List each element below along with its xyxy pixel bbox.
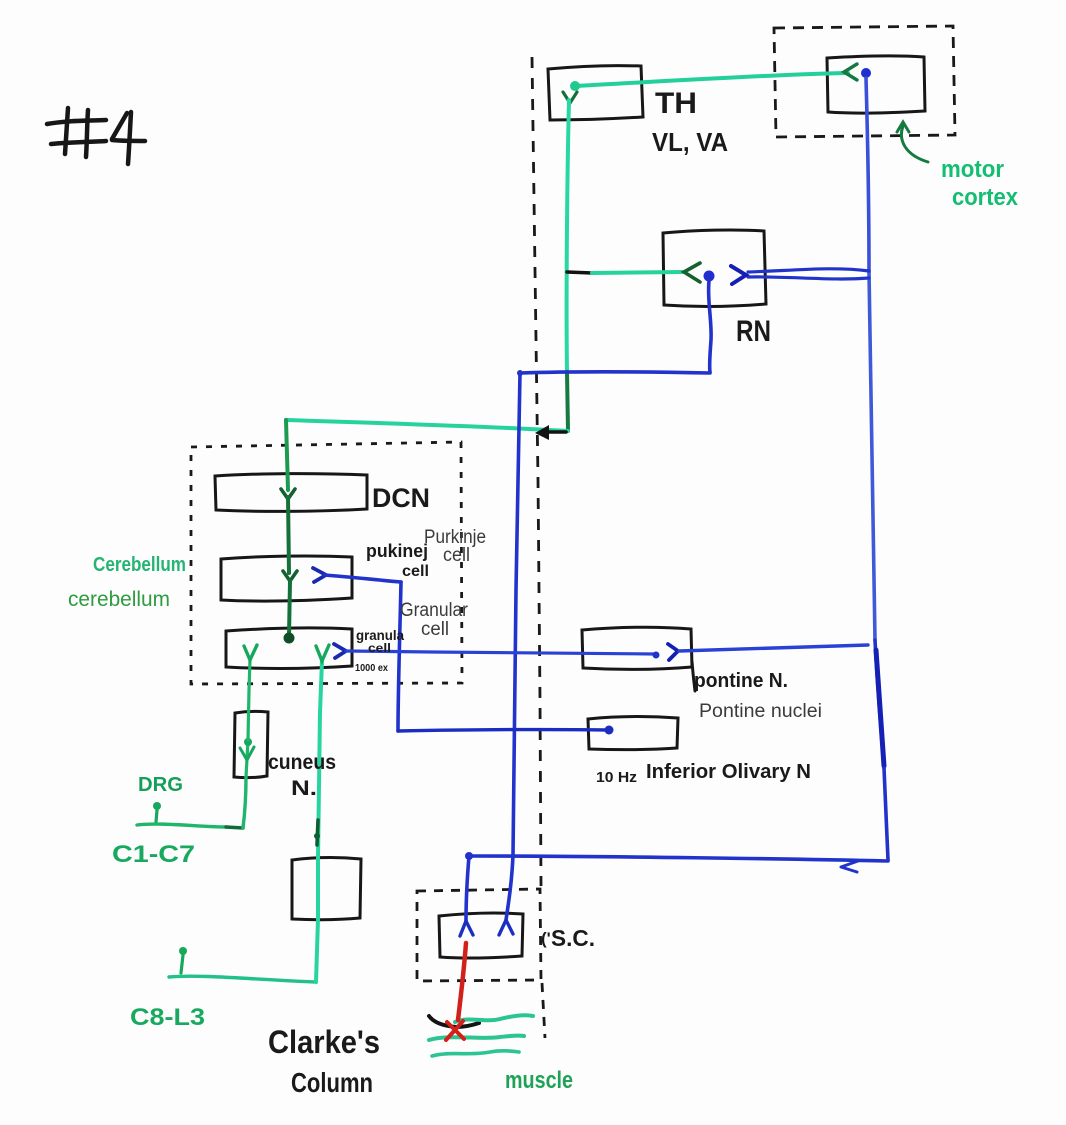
svg-text:Clarke's: Clarke's [268,1024,380,1060]
svg-text:cerebellum: cerebellum [68,588,170,611]
svg-text:1000 ex: 1000 ex [355,663,388,674]
svg-text:N.: N. [291,777,317,800]
svg-text:muscle: muscle [505,1067,573,1094]
svg-text:S.C.: S.C. [551,925,595,951]
svg-text:pontine N.: pontine N. [694,670,788,692]
svg-text:C8-L3: C8-L3 [130,1004,205,1031]
svg-text:DRG: DRG [138,774,183,796]
svg-text:cell: cell [443,545,470,566]
svg-text:cortex: cortex [952,184,1019,211]
svg-text:cell: cell [421,619,449,640]
svg-text:10 Hz: 10 Hz [596,769,637,786]
svg-text:motor: motor [941,156,1004,183]
svg-text:cell: cell [402,563,429,580]
svg-text:pukinej: pukinej [366,541,428,561]
svg-text:Column: Column [291,1067,373,1098]
svg-text:Inferior Olivary N: Inferior Olivary N [646,761,811,783]
svg-text:C1-C7: C1-C7 [112,841,195,868]
svg-text:cell: cell [368,641,391,655]
svg-text:(': (' [541,929,551,948]
svg-text:RN: RN [736,315,771,348]
svg-text:Pontine nuclei: Pontine nuclei [699,700,822,722]
svg-text:Granular: Granular [400,600,469,621]
svg-text:DCN: DCN [372,483,430,513]
svg-text:cuneus: cuneus [268,751,336,774]
svg-text:VL, VA: VL, VA [652,127,728,157]
svg-text:Cerebellum: Cerebellum [93,554,186,576]
svg-text:TH: TH [655,87,697,120]
